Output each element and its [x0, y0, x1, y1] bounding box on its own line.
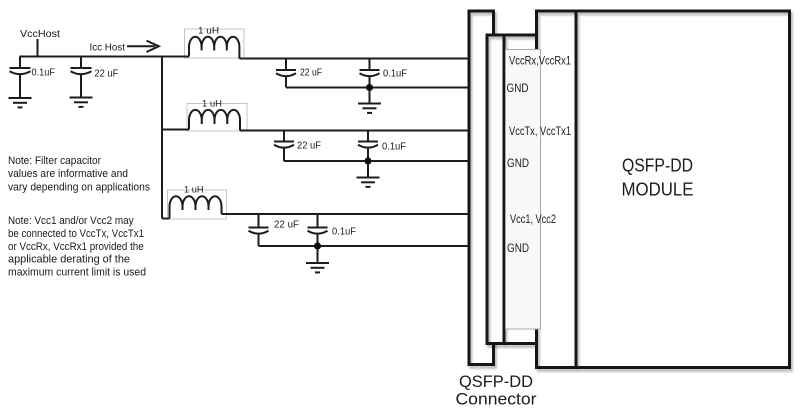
- svg-text:QSFP-DD: QSFP-DD: [459, 372, 533, 391]
- svg-text:MODULE: MODULE: [622, 179, 694, 200]
- svg-text:GND: GND: [507, 243, 529, 255]
- svg-text:GND: GND: [507, 83, 529, 95]
- svg-text:0.1uF: 0.1uF: [383, 68, 407, 79]
- svg-text:be connected to VccTx, VccTx1: be connected to VccTx, VccTx1: [8, 228, 144, 240]
- svg-text:1 uH: 1 uH: [198, 25, 219, 36]
- svg-text:1 uH: 1 uH: [202, 98, 222, 109]
- svg-text:or VccRx, VccRx1 provided the: or VccRx, VccRx1 provided the: [8, 241, 144, 253]
- svg-text:VccRx,VccRx1: VccRx,VccRx1: [509, 56, 571, 68]
- svg-text:GND: GND: [507, 158, 529, 170]
- svg-text:22 uF: 22 uF: [274, 219, 299, 230]
- svg-text:0.1uF: 0.1uF: [32, 68, 56, 79]
- svg-text:vary depending on applications: vary depending on applications: [8, 181, 150, 193]
- svg-text:22 uF: 22 uF: [300, 67, 322, 78]
- svg-text:Connector: Connector: [456, 390, 537, 409]
- svg-text:maximum current limit is used: maximum current limit is used: [8, 267, 146, 279]
- svg-text:QSFP-DD: QSFP-DD: [622, 155, 693, 176]
- svg-text:22 uF: 22 uF: [297, 140, 321, 151]
- svg-text:Vcc1, Vcc2: Vcc1, Vcc2: [510, 214, 556, 226]
- svg-text:22 uF: 22 uF: [94, 69, 118, 80]
- svg-text:applicable derating of the: applicable derating of the: [8, 254, 130, 266]
- svg-text:VccTx, VccTx1: VccTx, VccTx1: [509, 126, 571, 138]
- svg-text:0.1uF: 0.1uF: [382, 141, 406, 152]
- svg-text:Icc Host: Icc Host: [90, 41, 126, 53]
- svg-text:values are informative and: values are informative and: [8, 168, 128, 180]
- svg-text:Note: Vcc1 and/or Vcc2 may: Note: Vcc1 and/or Vcc2 may: [8, 215, 134, 227]
- svg-text:Note: Filter capacitor: Note: Filter capacitor: [8, 155, 101, 167]
- svg-text:VccHost: VccHost: [20, 28, 60, 40]
- svg-text:1 uH: 1 uH: [184, 184, 204, 195]
- svg-text:0.1uF: 0.1uF: [332, 226, 356, 237]
